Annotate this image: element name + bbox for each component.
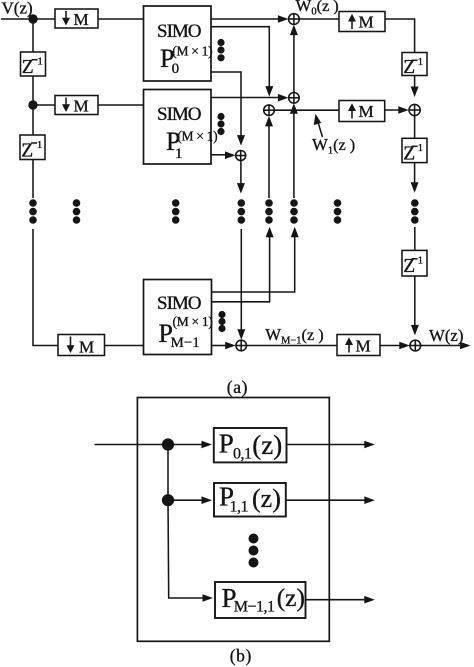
SIMO block U1 P1 — [144, 90, 218, 165]
svg-text:SIMO: SIMO — [157, 293, 201, 314]
wire J2 to downsampler M2 — [33, 104, 55, 106]
ellipsis dots left chain — [29, 199, 37, 224]
wire B2 down and right arrow to PM1l — [168, 500, 204, 598]
wire Z2 down to ellipsis — [32, 160, 34, 199]
filter block PM1l — [215, 582, 306, 618]
figure b outer box — [137, 398, 329, 642]
wire AR1 down to delay ZR2 — [414, 116, 416, 139]
wire M2 to SIMO P1 — [98, 104, 144, 106]
svg-text:M: M — [359, 13, 374, 32]
ellipsis dots downsampler column — [73, 199, 81, 224]
adder AR2 — [410, 340, 421, 351]
wire U2 to adder AR1 with arrow — [385, 109, 404, 111]
wire M1 to SIMO P0 — [98, 18, 144, 20]
svg-text:M−1: M−1 — [171, 335, 200, 351]
wire arrow B1 to P0l — [168, 444, 203, 446]
svg-text:M: M — [359, 102, 374, 121]
wire SIMO P2 output 2 up with arrow — [212, 235, 270, 302]
wire M3 to SIMO P2 — [105, 345, 144, 347]
adder A3 — [264, 105, 275, 116]
wire B1 down to B2 — [167, 445, 169, 501]
svg-text:1: 1 — [418, 56, 424, 68]
ellipsis dots column x294 — [290, 199, 298, 224]
wire input b — [95, 444, 169, 446]
svg-text:M: M — [74, 10, 89, 29]
svg-text:1: 1 — [37, 56, 43, 68]
svg-text:1: 1 — [37, 139, 43, 151]
adder A2 — [289, 93, 300, 104]
adder A1 — [289, 14, 300, 25]
svg-text:M: M — [356, 337, 371, 356]
node junction dot J1 — [28, 14, 37, 23]
node junction dot B2 — [162, 494, 174, 506]
SIMO block U2 PM-1 — [144, 280, 213, 355]
wire ellipsis down with arrow to adder AM1 — [240, 229, 242, 335]
svg-text:SIMO: SIMO — [157, 104, 201, 125]
svg-text:V(z): V(z) — [2, 0, 33, 18]
adder A4 — [236, 151, 246, 161]
svg-text:W(z): W(z) — [429, 326, 463, 345]
svg-text:WM−1(z ): WM−1(z ) — [265, 325, 324, 347]
svg-text:1: 1 — [418, 255, 424, 267]
svg-text:(M × 1): (M × 1) — [172, 44, 212, 59]
delay ZR2 — [402, 138, 427, 164]
wire SIMO P0 output 1 to adder A1 — [211, 18, 284, 20]
wire Z1 to junction J2 — [32, 76, 34, 105]
wire U1 to delay ZR1 — [385, 19, 415, 53]
wire P0l output arrow — [287, 444, 367, 446]
wire ZR1 to adder AR1 with arrow — [414, 76, 416, 93]
wire SIMO P1 output 1 to adder A2 — [211, 97, 284, 99]
ellipsis dots SIMO column — [172, 199, 180, 224]
wire U3 to adder AR2 with arrow — [380, 345, 405, 347]
svg-text:M: M — [74, 97, 89, 116]
svg-text:M: M — [79, 338, 94, 357]
svg-text:1: 1 — [175, 146, 183, 162]
svg-text:1,1: 1,1 — [230, 499, 249, 516]
downsampler M1 — [55, 9, 98, 29]
delay ZR3 — [402, 250, 427, 277]
ellipsis dots beside SIMO P2 — [218, 311, 225, 332]
node junction dot J2 — [28, 100, 37, 109]
wire W1 line adder A3 to upsampler U2 — [274, 109, 339, 111]
adder AR1 — [409, 104, 420, 115]
wire SIMO P1 output 3 to adder A4 with arrow — [211, 154, 227, 156]
svg-text:(z): (z) — [277, 583, 305, 612]
delay Z1 — [21, 52, 46, 78]
svg-text:(b): (b) — [230, 646, 252, 666]
svg-text:(z): (z) — [252, 430, 282, 460]
svg-text:(z): (z) — [252, 484, 281, 513]
wire input horizontal — [1, 18, 55, 20]
ellipsis dots b — [249, 534, 259, 568]
svg-text:(M × 1): (M × 1) — [177, 129, 217, 144]
ellipsis dots column x269 — [265, 199, 273, 224]
upsampler U3 — [337, 335, 380, 356]
svg-text:W0(z ): W0(z ) — [296, 0, 339, 17]
node junction dot B1 — [162, 438, 174, 450]
wire ellipsis to delay ZR3 — [414, 227, 416, 250]
svg-text:SIMO: SIMO — [157, 21, 201, 42]
upsampler U1 — [339, 12, 385, 32]
wire branch up from W1 line into adder A2 with arrow — [293, 106, 295, 110]
wire up into adder A3 from below with arrow — [268, 125, 270, 198]
wire PM1l output arrow — [306, 599, 367, 601]
svg-text:M−1,1: M−1,1 — [234, 599, 275, 616]
delay Z2 — [20, 135, 45, 162]
wire left chain to bottom row — [33, 229, 58, 346]
wire SIMO P0 output 3 down with arrow to adder A4 — [211, 72, 241, 141]
downsampler M2 — [55, 96, 98, 116]
wire SIMO P0 output 2 down with arrow to A2 input line — [211, 27, 269, 89]
wire output W(z) with arrow — [421, 345, 465, 347]
wire A4 down with arrow to ellipsis — [240, 161, 242, 189]
wire AM1 to upsampler U3 — [247, 345, 338, 347]
ellipsis dots beside SIMO P1 — [217, 113, 224, 135]
svg-text:(a): (a) — [227, 377, 248, 397]
ellipsis dots right chain — [411, 199, 419, 224]
filter block P1l — [214, 482, 286, 517]
wire ZR2 down with arrow to ellipsis — [414, 163, 416, 188]
wire vertical x294 below W1 line — [293, 110, 295, 198]
svg-text:0: 0 — [172, 61, 180, 77]
ellipsis dots beside SIMO P0 — [217, 39, 224, 62]
wire P1l output arrow — [286, 499, 366, 501]
wire adder A1 to upsampler U1 — [299, 18, 339, 20]
wire SIMO P2 output 1 up with arrow — [212, 235, 295, 292]
adder AM1 — [236, 340, 247, 351]
wire V chain to delay Z1 — [32, 19, 34, 52]
downsampler M3 — [58, 335, 105, 357]
ellipsis dots column x241 — [238, 199, 246, 224]
svg-text:W1(z ): W1(z ) — [312, 135, 355, 156]
wire adder A2 output up to adder A1 with arrow — [293, 27, 295, 93]
svg-text:0,1: 0,1 — [233, 446, 252, 463]
svg-text:P: P — [219, 428, 234, 458]
annotation arrow W1 — [317, 119, 323, 137]
svg-text:1: 1 — [418, 142, 424, 154]
delay ZR1 — [402, 53, 427, 79]
wire SIMO P2 output 3 to adder AM1 with arrow — [212, 345, 228, 347]
wire ZR3 down with arrow to adder AR2 — [414, 276, 416, 331]
filter block P0l — [214, 428, 287, 463]
SIMO block U0 P0 — [144, 6, 213, 81]
wire J2 to delay Z2 — [32, 105, 34, 135]
wire arrow B2 to P1l — [168, 499, 203, 501]
upsampler U2 — [339, 101, 385, 122]
svg-text:(M × 1): (M × 1) — [173, 314, 213, 329]
ellipsis dots column x337 — [334, 199, 342, 224]
